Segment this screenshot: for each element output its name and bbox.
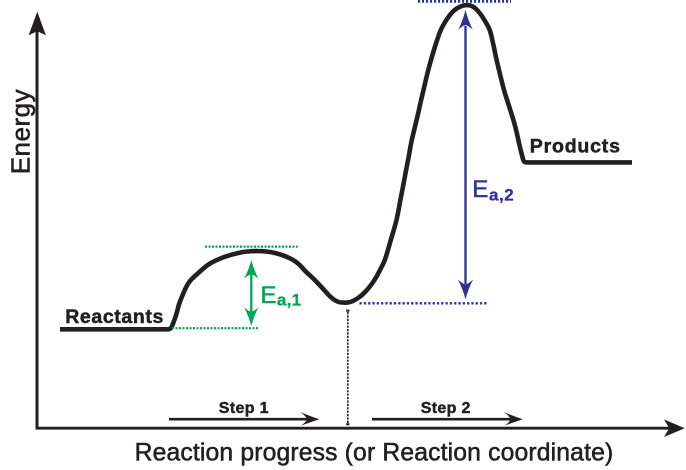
svg-text:Reactants: Reactants [65, 306, 164, 328]
green double arrow Ea1 [244, 260, 258, 326]
y-axis arrowhead [29, 12, 46, 35]
reaction energy curve [60, 5, 632, 329]
step 2 arrow [372, 412, 523, 426]
x-axis line [36, 427, 670, 430]
step 1 arrow [169, 412, 319, 426]
green dotted line at reactant level [172, 327, 260, 329]
svg-text:E: E [260, 282, 276, 309]
svg-text:Energy: Energy [6, 89, 36, 174]
x-axis arrowhead [664, 419, 685, 437]
svg-text:Step 2: Step 2 [421, 400, 471, 417]
svg-text:Reaction progress (or Reaction: Reaction progress (or Reaction coordinat… [135, 439, 614, 466]
black dotted vertical line at valley [347, 312, 349, 424]
blue dotted line at top peak level [418, 0, 511, 3]
svg-text:a,2: a,2 [489, 185, 514, 204]
blue double arrow Ea2 [458, 10, 473, 300]
svg-text:Products: Products [530, 135, 621, 157]
green dotted line at first peak level [205, 246, 298, 248]
dotted line end ticks [346, 310, 349, 312]
blue dotted line at intermediate valley level [360, 302, 487, 304]
svg-text:E: E [472, 176, 488, 203]
svg-text:Step 1: Step 1 [219, 400, 269, 417]
y-axis line [36, 30, 39, 428]
svg-text:a,1: a,1 [277, 291, 302, 310]
